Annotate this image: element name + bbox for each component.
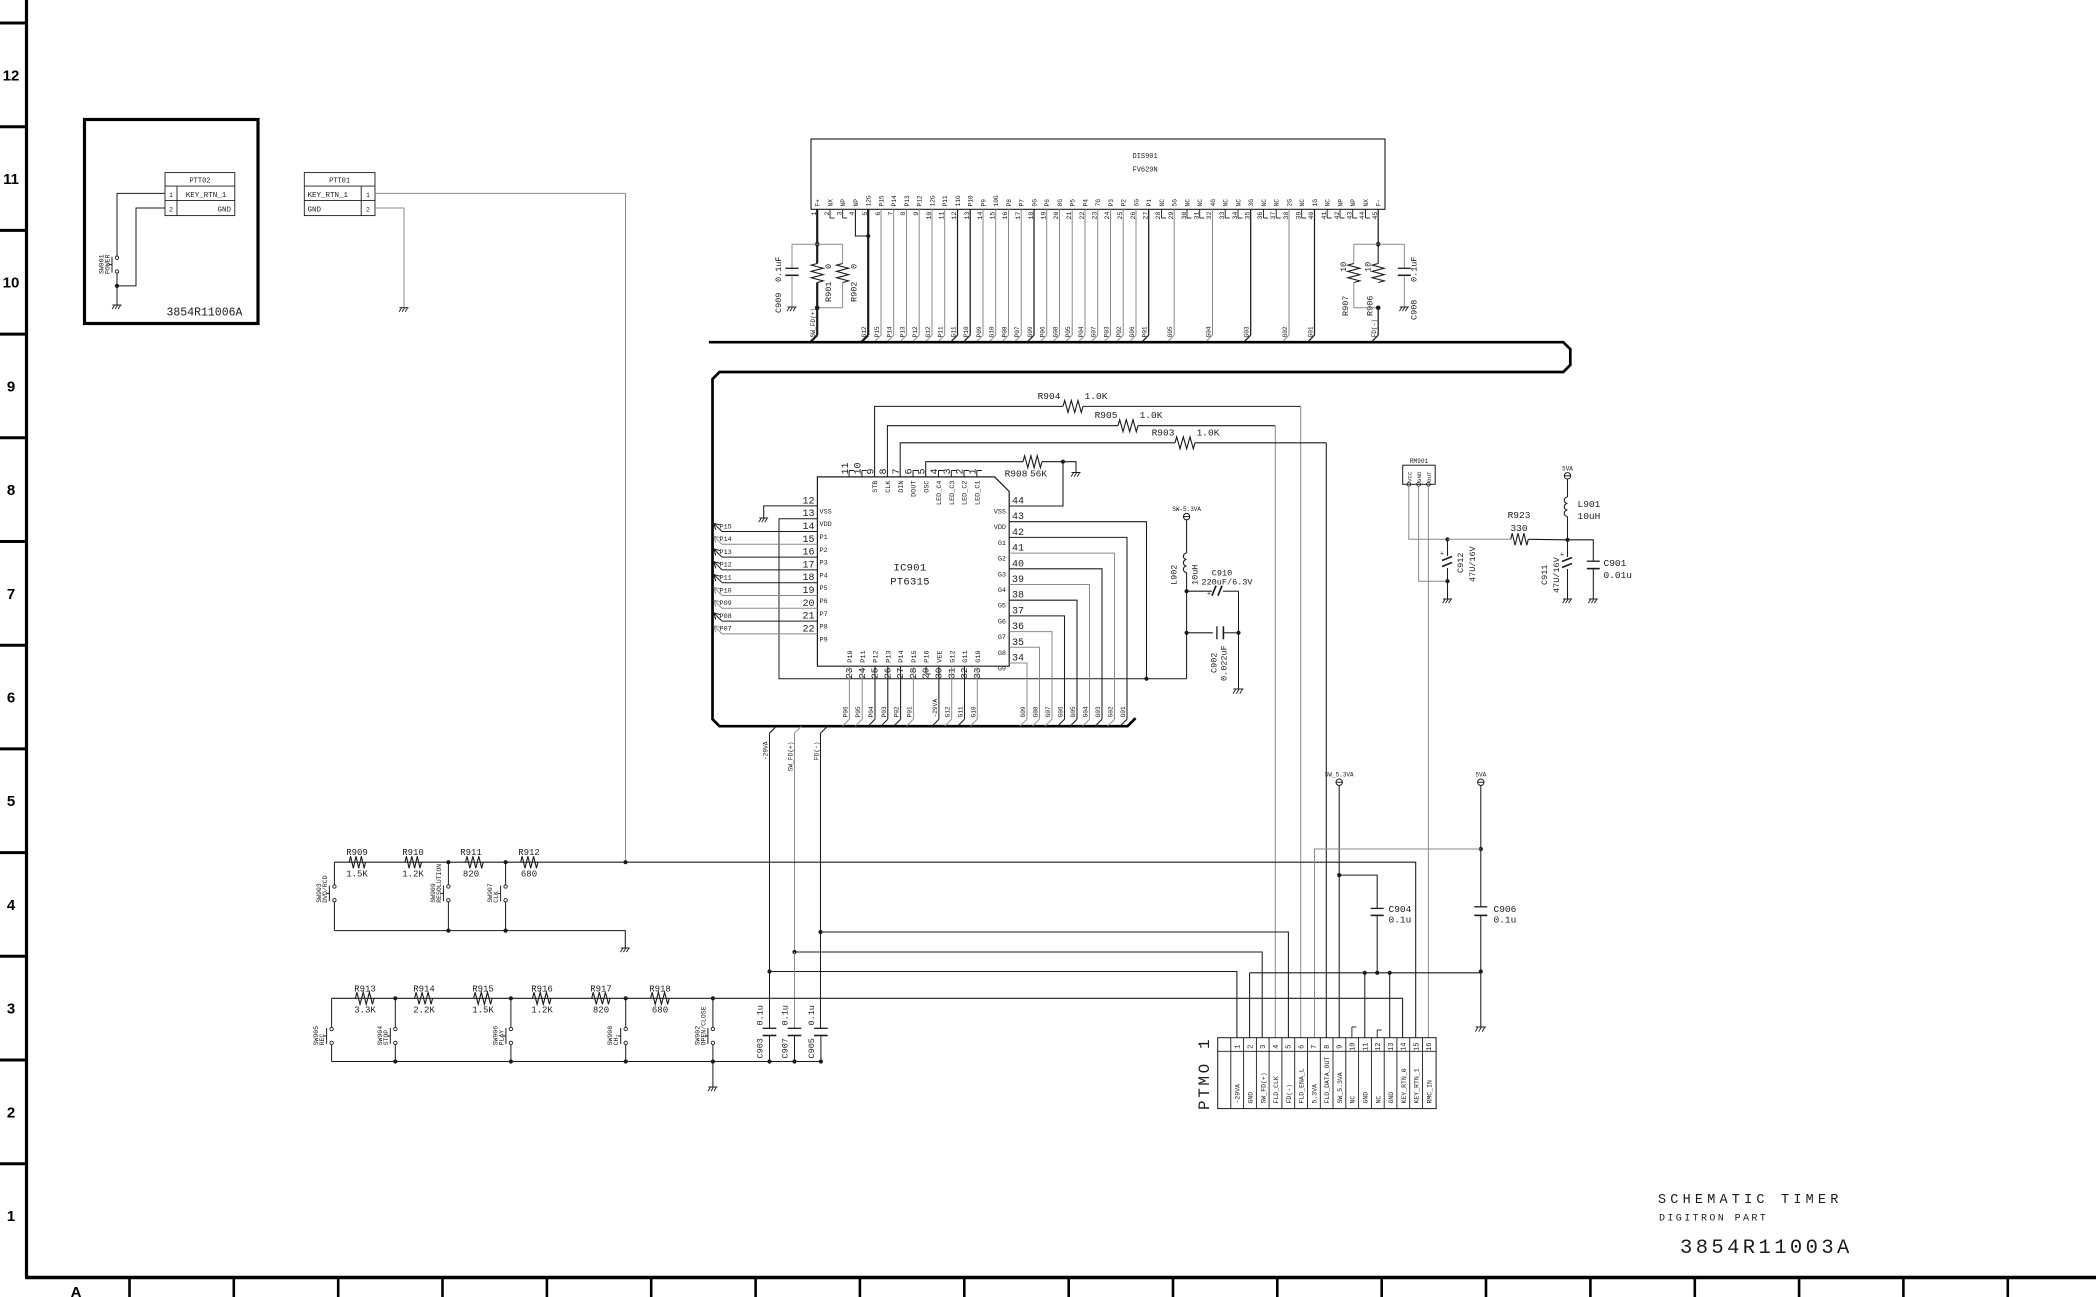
svg-text:7: 7 bbox=[7, 586, 15, 603]
svg-text:1: 1 bbox=[969, 468, 980, 474]
signal flag P12 bbox=[714, 562, 722, 570]
node junction GND rail end bbox=[1479, 969, 1483, 973]
svg-text:G09: G09 bbox=[1020, 706, 1027, 717]
border tick left bbox=[0, 540, 27, 543]
svg-text:R915: R915 bbox=[472, 985, 494, 995]
wire VSS pin44 to R908 junction bbox=[1009, 462, 1063, 506]
svg-text:P14: P14 bbox=[887, 326, 894, 337]
svg-text:R914: R914 bbox=[413, 985, 435, 995]
wire P09 to IC901 pin 20 bbox=[722, 607, 817, 609]
border tick left bbox=[0, 125, 27, 128]
display DIS901 pin 28 NC stub bbox=[1161, 209, 1163, 218]
wire RM901 VCC to C912/R923 node bbox=[1409, 486, 1448, 539]
border tick bottom bbox=[754, 1278, 757, 1297]
connector PTM01 body bbox=[1218, 1038, 1436, 1109]
capacitor C911 47U/16V bbox=[1567, 540, 1569, 557]
wire FD(-) to PTM01 pin5 bbox=[821, 932, 1289, 1038]
wire P12 to IC901 pin 17 bbox=[722, 569, 817, 571]
connector PTT01 table bbox=[304, 173, 375, 216]
svg-text:P05: P05 bbox=[855, 706, 862, 717]
border frame left ruler line bbox=[25, 0, 28, 1278]
border tick bottom bbox=[441, 1278, 444, 1297]
wire DIS901 pin 35 net G03 to bus bbox=[1250, 209, 1252, 335]
svg-text:2: 2 bbox=[7, 1104, 15, 1121]
svg-text:C912: C912 bbox=[1456, 553, 1466, 573]
border tick bottom bbox=[233, 1278, 236, 1297]
svg-text:P8: P8 bbox=[820, 624, 828, 632]
capacitor C912 47U/16V bbox=[1447, 539, 1449, 556]
node junction -29VA branch bbox=[767, 969, 771, 973]
wire DIS901 pin 27 net P01 to bus bbox=[1148, 209, 1150, 335]
svg-text:P03: P03 bbox=[881, 706, 888, 717]
svg-text:G10: G10 bbox=[970, 706, 977, 717]
ground at R908 bbox=[1072, 472, 1081, 474]
svg-text:OPEN/CLOSE: OPEN/CLOSE bbox=[700, 1006, 707, 1045]
svg-text:P13: P13 bbox=[720, 549, 732, 557]
wire OSC pin5 to R908 bbox=[926, 462, 1023, 477]
svg-text:P04: P04 bbox=[1078, 326, 1085, 337]
RM901 pin 3 circle bbox=[1427, 482, 1431, 486]
wire DIS901 pin 16 net P08 to bus bbox=[1008, 209, 1010, 335]
svg-text:RMC_IN: RMC_IN bbox=[1426, 1080, 1433, 1104]
svg-text:19: 19 bbox=[1041, 212, 1049, 220]
svg-text:NC: NC bbox=[1299, 199, 1306, 207]
svg-text:R901: R901 bbox=[824, 282, 834, 302]
wire R906/R907 bottom join bbox=[1354, 307, 1378, 309]
node junction R917/R918 tap bbox=[624, 996, 628, 1000]
node junction L902/C910 bbox=[1185, 589, 1189, 593]
svg-text:680: 680 bbox=[521, 870, 537, 880]
svg-text:C903: C903 bbox=[756, 1038, 766, 1058]
svg-text:56K: 56K bbox=[1030, 469, 1047, 480]
connector PTM01 column divider bbox=[1396, 1038, 1398, 1109]
node junction SW906 bottom bbox=[509, 1059, 513, 1063]
svg-text:R912: R912 bbox=[518, 848, 540, 858]
inductor L901 10uH bbox=[1564, 497, 1567, 517]
capacitor C902 0.022uF bbox=[1187, 632, 1213, 634]
inductor L902 10uH bbox=[1183, 553, 1186, 573]
svg-text:VEE: VEE bbox=[937, 650, 945, 662]
svg-text:P03: P03 bbox=[1104, 326, 1111, 337]
svg-text:G12: G12 bbox=[945, 706, 952, 717]
display DIS901 pin 44 NC stub bbox=[1365, 209, 1367, 218]
wire KEY_RTN_0 resistor chain top bbox=[332, 997, 713, 999]
connector PTM01 column divider bbox=[1281, 1038, 1283, 1109]
svg-text:FD(-): FD(-) bbox=[1286, 1084, 1293, 1104]
svg-text:9: 9 bbox=[913, 212, 921, 216]
svg-text:G4: G4 bbox=[998, 587, 1006, 595]
svg-text:DVD/RCD: DVD/RCD bbox=[322, 875, 329, 902]
svg-text:-29VA: -29VA bbox=[1235, 1084, 1242, 1104]
wire FD(-) bus exit bbox=[821, 726, 828, 733]
svg-text:POWER: POWER bbox=[105, 254, 112, 274]
svg-text:NC: NC bbox=[1184, 199, 1191, 207]
wire KEY_RTN_1 from PTT01 pin1 (long vertical) bbox=[375, 193, 626, 862]
svg-text:3854R11006A: 3854R11006A bbox=[167, 307, 243, 320]
wire SW904 to bottom wire bbox=[394, 1045, 396, 1062]
signal flag P14 bbox=[714, 536, 722, 544]
wire IC901 pin 23 net P06 to bus bbox=[848, 666, 850, 719]
svg-text:3: 3 bbox=[943, 468, 954, 474]
wire IC901 pin 38 net G05 to bus bbox=[1009, 600, 1077, 719]
wire tap to SW908 bbox=[625, 998, 627, 1027]
wire RMC_IN RM901 OUT to PTM01 pin16 bbox=[1427, 486, 1429, 1037]
svg-text:0.022uF: 0.022uF bbox=[1220, 645, 1230, 681]
wire DIS901 pin 18 net G09 to bus bbox=[1033, 209, 1035, 335]
node junction L901/C911 bbox=[1565, 538, 1569, 542]
wire IC901 pin 28 net P01 to bus bbox=[912, 666, 914, 719]
ground keys lower row bbox=[708, 1086, 717, 1088]
wire IC901 pin 32 net G11 to bus bbox=[964, 666, 966, 719]
wire STB pin9 to R904 bbox=[875, 406, 1063, 477]
wire SW901 to ground node bbox=[116, 273, 118, 286]
svg-text:SW_5.3VA: SW_5.3VA bbox=[1325, 772, 1354, 779]
capacitor C901 0.01u bbox=[1568, 540, 1594, 561]
display DIS901 pin 33 NC stub bbox=[1224, 209, 1226, 218]
wire DIS901 pin 21 net P05 to bus bbox=[1071, 209, 1073, 335]
svg-text:1: 1 bbox=[366, 192, 370, 199]
svg-text:STOP: STOP bbox=[383, 1030, 390, 1046]
wire SW_FD(+) bus exit bbox=[795, 726, 802, 733]
wire R901/R902 bottom join bbox=[817, 307, 842, 309]
wire FD(-) to bus bbox=[1377, 308, 1379, 335]
wire P13 to IC901 pin 16 bbox=[722, 556, 817, 558]
node junction SW901/GND bbox=[115, 284, 119, 288]
svg-text:4G: 4G bbox=[1210, 199, 1217, 207]
svg-text:G3: G3 bbox=[998, 571, 1006, 579]
svg-text:FLD_DATA_OUT: FLD_DATA_OUT bbox=[1324, 1057, 1331, 1104]
svg-text:NC: NC bbox=[1261, 199, 1268, 207]
svg-text:P05: P05 bbox=[1065, 326, 1072, 337]
svg-text:0.1u: 0.1u bbox=[781, 1005, 791, 1025]
svg-text:R908: R908 bbox=[1005, 469, 1028, 480]
wire lower row ground stub bbox=[712, 1062, 714, 1088]
svg-text:G08: G08 bbox=[1033, 706, 1040, 717]
wire IC901 pin 24 net P05 to bus bbox=[861, 666, 863, 719]
svg-text:G06: G06 bbox=[1129, 326, 1136, 337]
capacitor C906 0.1u bbox=[1474, 906, 1487, 908]
svg-text:1: 1 bbox=[1235, 1045, 1243, 1049]
svg-text:PT6315: PT6315 bbox=[890, 577, 930, 589]
svg-text:5: 5 bbox=[7, 793, 15, 810]
svg-text:6: 6 bbox=[1298, 1045, 1306, 1049]
svg-text:VSS: VSS bbox=[820, 508, 832, 516]
ground under C912 bbox=[1443, 598, 1452, 600]
wire DIS901 pin 23 net G07 to bus bbox=[1097, 209, 1099, 335]
wire tap to SW902 bbox=[712, 998, 714, 1027]
signal flag P10 bbox=[714, 587, 722, 595]
svg-text:VSS: VSS bbox=[994, 509, 1006, 517]
connector PTM01 pin 10 NC stub bbox=[1351, 1027, 1353, 1038]
svg-text:G12: G12 bbox=[949, 650, 957, 662]
node junction C902 right bbox=[1236, 631, 1240, 635]
svg-text:0: 0 bbox=[824, 264, 834, 269]
svg-text:2: 2 bbox=[169, 206, 173, 213]
svg-text:G1: G1 bbox=[998, 540, 1006, 548]
svg-text:GND: GND bbox=[1416, 471, 1423, 482]
IC901 pin 10 NC stub bbox=[861, 471, 863, 477]
wire IC901 pin 42 net G01 to bus bbox=[1009, 537, 1127, 719]
svg-text:4: 4 bbox=[930, 468, 941, 474]
svg-text:G09: G09 bbox=[1027, 326, 1034, 337]
svg-text:G10: G10 bbox=[975, 650, 983, 662]
wire IC901 pin 36 net G07 to bus bbox=[1009, 632, 1052, 720]
svg-text:NP: NP bbox=[1350, 199, 1357, 207]
wire DIS901 pin 12 net G11 to bus bbox=[957, 209, 959, 335]
svg-text:A: A bbox=[71, 1284, 82, 1297]
svg-text:G02: G02 bbox=[1282, 326, 1289, 337]
border tick left bbox=[0, 644, 27, 647]
svg-text:3G: 3G bbox=[1248, 199, 1255, 207]
wire IC901 pin 26 net P03 to bus bbox=[887, 666, 889, 719]
svg-text:G07: G07 bbox=[1091, 326, 1098, 337]
svg-text:P11: P11 bbox=[938, 326, 945, 337]
wire P08 to IC901 pin 21 bbox=[722, 620, 817, 622]
wire SW907 to bottom wire bbox=[505, 902, 507, 931]
wire CLK pin8 to R905 bbox=[887, 426, 1118, 477]
svg-text:5: 5 bbox=[1286, 1045, 1294, 1049]
signal flag P08 bbox=[714, 613, 722, 621]
wire ground stub bbox=[116, 286, 118, 305]
node junction SW909 bottom bbox=[446, 929, 450, 933]
svg-text:G10: G10 bbox=[989, 326, 996, 337]
svg-text:R905: R905 bbox=[1095, 410, 1118, 421]
IC901 pin 1 NC stub bbox=[976, 471, 978, 477]
svg-text:5VA: 5VA bbox=[1475, 772, 1486, 779]
wire P15 to IC901 pin 14 bbox=[722, 531, 817, 533]
svg-text:P12: P12 bbox=[720, 562, 732, 570]
resistor R912 680 bbox=[521, 856, 538, 868]
svg-text:G08: G08 bbox=[1053, 326, 1060, 337]
svg-text:-29VA: -29VA bbox=[932, 699, 939, 718]
wire L902 to junction bbox=[1186, 573, 1188, 592]
svg-text:4: 4 bbox=[7, 897, 16, 914]
svg-text:GND: GND bbox=[308, 206, 322, 214]
svg-text:DIGITRON PART: DIGITRON PART bbox=[1659, 1214, 1768, 1225]
wire SW-5.3VA to L902 bbox=[1186, 520, 1188, 553]
wire IC901 pin 35 net G08 to bus bbox=[1009, 647, 1039, 719]
display DIS901 pin 37 NC stub bbox=[1275, 209, 1277, 218]
svg-text:0.1uF: 0.1uF bbox=[774, 256, 784, 282]
border tick left bbox=[0, 333, 27, 336]
svg-text:21: 21 bbox=[1066, 212, 1074, 220]
display DIS901 pin 30 NC stub bbox=[1186, 209, 1188, 218]
svg-text:R904: R904 bbox=[1038, 391, 1061, 402]
svg-text:GND: GND bbox=[1363, 1092, 1370, 1104]
svg-text:C902: C902 bbox=[1210, 653, 1220, 673]
svg-text:G11: G11 bbox=[962, 650, 970, 662]
node junction R915/R916 tap bbox=[509, 996, 513, 1000]
wire tap to SW909 bbox=[447, 862, 449, 885]
svg-text:OSC: OSC bbox=[923, 481, 931, 493]
svg-text:P1: P1 bbox=[1146, 199, 1153, 207]
capacitor C910 220uF/6.3V bbox=[1187, 590, 1212, 592]
connector PTM01 column divider bbox=[1358, 1038, 1360, 1109]
svg-text:11: 11 bbox=[3, 171, 19, 188]
svg-text:6: 6 bbox=[7, 690, 15, 707]
svg-text:+: + bbox=[1440, 551, 1444, 559]
display DIS901 pin 42 NC stub bbox=[1339, 209, 1341, 218]
svg-text:P15: P15 bbox=[720, 523, 732, 531]
svg-text:P13: P13 bbox=[904, 195, 911, 206]
svg-text:5VA: 5VA bbox=[1562, 465, 1573, 472]
svg-text:G11: G11 bbox=[958, 706, 965, 717]
border tick bottom bbox=[128, 1278, 131, 1297]
svg-text:P14: P14 bbox=[720, 536, 732, 544]
svg-text:G03: G03 bbox=[1095, 706, 1102, 717]
svg-text:3: 3 bbox=[7, 1001, 15, 1018]
connector PTM01 column divider bbox=[1332, 1038, 1334, 1109]
svg-text:P11: P11 bbox=[860, 650, 868, 662]
switch SW903 DVD/RCD bbox=[333, 885, 336, 888]
svg-text:P6: P6 bbox=[820, 598, 828, 606]
border tick left bbox=[0, 851, 27, 854]
node junction 5VA / 5.3VA branch bbox=[1479, 847, 1483, 851]
border tick bottom bbox=[1276, 1278, 1279, 1297]
sub-board outline box 3854R11006A bbox=[85, 120, 259, 324]
node junction SW902 tap bbox=[711, 996, 715, 1000]
IC901 pin 29 NC stub bbox=[925, 666, 927, 674]
svg-text:NC: NC bbox=[1159, 199, 1166, 207]
node junction pin1 bottom bbox=[815, 306, 820, 311]
wire L902 junction down to C902 bbox=[1186, 591, 1188, 633]
wire PTM01 pin13 GND bbox=[1389, 973, 1391, 1038]
resistor R914 2.2K bbox=[415, 992, 433, 1004]
wire C912 to ground bbox=[1447, 581, 1449, 599]
node junction R913/R914 tap bbox=[393, 996, 397, 1000]
svg-text:4: 4 bbox=[849, 212, 857, 216]
node junction pin45/C908 bbox=[1376, 242, 1381, 247]
svg-text:1.5K: 1.5K bbox=[472, 1006, 494, 1016]
svg-text:3: 3 bbox=[1260, 1045, 1268, 1049]
border tick left bbox=[0, 229, 27, 232]
svg-text:1G: 1G bbox=[1312, 199, 1319, 207]
resistor R909 1.5K bbox=[349, 856, 365, 868]
svg-text:G02: G02 bbox=[1108, 706, 1115, 717]
border tick bottom bbox=[2007, 1278, 2010, 1297]
svg-text:2: 2 bbox=[824, 212, 832, 216]
wire -29VA bus exit bbox=[770, 726, 777, 733]
wire IC901 pin 31 net G12 to bus bbox=[951, 666, 953, 719]
svg-text:P7: P7 bbox=[820, 611, 828, 619]
svg-text:DIN: DIN bbox=[898, 481, 906, 493]
wire L901 to junction bbox=[1567, 517, 1569, 540]
svg-text:R909: R909 bbox=[346, 848, 368, 858]
svg-text:KEY_RTN_1: KEY_RTN_1 bbox=[186, 192, 227, 200]
bus cable DIS901-to-IC901 (thick routing path) bbox=[709, 342, 1570, 726]
switch SW902 OPEN/CLOSE bbox=[711, 1027, 714, 1030]
svg-text:F+: F+ bbox=[815, 199, 822, 207]
resistor R923 330 bbox=[1448, 538, 1511, 540]
wire NP pin4 jog bbox=[855, 209, 868, 236]
svg-text:1: 1 bbox=[169, 192, 173, 199]
svg-text:11: 11 bbox=[939, 212, 947, 220]
wire P11 to IC901 pin 18 bbox=[722, 582, 817, 584]
svg-text:P02: P02 bbox=[894, 706, 901, 717]
border tick bottom bbox=[1067, 1278, 1070, 1297]
svg-text:G04: G04 bbox=[1206, 326, 1213, 337]
svg-text:13: 13 bbox=[1388, 1043, 1396, 1051]
svg-text:G01: G01 bbox=[1120, 706, 1127, 717]
svg-text:15: 15 bbox=[1413, 1043, 1421, 1051]
wire C910/C902 right to ground bbox=[1238, 591, 1240, 689]
svg-text:330: 330 bbox=[1510, 523, 1527, 534]
switch SW905 REC bbox=[330, 1027, 333, 1030]
border tick bottom bbox=[1380, 1278, 1383, 1297]
svg-text:R923: R923 bbox=[1508, 510, 1531, 521]
wire -29VA down to C903 bbox=[769, 972, 771, 1029]
IC901 pin 3 NC stub bbox=[950, 471, 952, 477]
border tick left bbox=[0, 436, 27, 439]
resistor R908 56K bbox=[1023, 456, 1042, 468]
resistor R915 1.5K bbox=[474, 992, 493, 1004]
svg-text:6: 6 bbox=[875, 212, 883, 216]
svg-text:PTMO 1: PTMO 1 bbox=[1196, 1037, 1214, 1110]
svg-text:NC: NC bbox=[1325, 199, 1332, 207]
switch SW909 RESOLUTION bbox=[447, 885, 450, 888]
border tick left bbox=[0, 1162, 27, 1165]
node junction VDD rail / pin43 bbox=[1144, 677, 1148, 681]
wire IC901 pin 25 net P04 to bus bbox=[874, 666, 876, 719]
wire PTT02 pin1 to switch SW901 bbox=[117, 193, 165, 256]
IC901 pin 2 NC stub bbox=[963, 471, 965, 477]
svg-text:G6: G6 bbox=[998, 618, 1006, 626]
ground under PTT01 pin2 bbox=[400, 307, 409, 309]
IC U901 body (IC901 PT6315) bbox=[817, 477, 1009, 666]
border tick bottom bbox=[1902, 1278, 1905, 1297]
svg-text:9: 9 bbox=[866, 468, 877, 474]
svg-text:16: 16 bbox=[1426, 1043, 1434, 1051]
svg-text:22: 22 bbox=[1079, 212, 1087, 220]
wire SW905 to bottom wire bbox=[331, 1045, 333, 1062]
svg-text:0.1u: 0.1u bbox=[1389, 915, 1412, 926]
svg-text:9: 9 bbox=[7, 378, 15, 395]
wire IC901 pin 34 net G09 to bus bbox=[1009, 663, 1027, 719]
svg-text:5G: 5G bbox=[1172, 199, 1179, 207]
svg-text:R906: R906 bbox=[1366, 296, 1376, 316]
svg-text:P01: P01 bbox=[1142, 326, 1149, 337]
svg-text:R918: R918 bbox=[649, 985, 671, 995]
resistor R916 1.2K bbox=[533, 992, 552, 1004]
ground under C909 bbox=[788, 306, 797, 308]
IC901 pin 4 NC stub bbox=[938, 471, 940, 477]
svg-text:0: 0 bbox=[850, 264, 860, 269]
display DIS901 pin 39 NC stub bbox=[1301, 209, 1303, 218]
svg-text:1.0K: 1.0K bbox=[1197, 428, 1220, 439]
node junction GND rail pin13 bbox=[1388, 971, 1392, 975]
svg-text:P09: P09 bbox=[976, 326, 983, 337]
svg-text:CLK: CLK bbox=[885, 480, 893, 493]
wire DIS901 pin 14 net P09 to bus bbox=[982, 209, 984, 335]
svg-text:P2: P2 bbox=[820, 547, 828, 555]
svg-text:SW_5.3VA: SW_5.3VA bbox=[1337, 1072, 1344, 1103]
svg-text:10: 10 bbox=[854, 462, 865, 474]
IC RM901 remote receiver bbox=[1403, 465, 1436, 484]
wire 5.3VA branch to PTM01 pin7 bbox=[1315, 849, 1481, 1038]
wire KEY_RTN_0 to PTM01 pin14 bbox=[713, 998, 1403, 1037]
wire DIN pin7 to R903 bbox=[900, 443, 1175, 477]
node junction SW907 bottom bbox=[504, 929, 508, 933]
svg-text:KEY_RTN_1: KEY_RTN_1 bbox=[1414, 1068, 1421, 1103]
svg-text:SW_FD(+): SW_FD(+) bbox=[1260, 1072, 1267, 1103]
display DIS901 pin 36 NC stub bbox=[1263, 209, 1265, 218]
capacitor C905 0.1u bbox=[814, 1027, 828, 1029]
svg-text:-29VA: -29VA bbox=[763, 741, 770, 760]
wire IC901 pin 30 net -29VA to bus bbox=[938, 666, 940, 719]
node junction R910/R911 tap bbox=[446, 860, 450, 864]
svg-text:P06: P06 bbox=[1040, 326, 1047, 337]
svg-text:7: 7 bbox=[888, 212, 896, 216]
